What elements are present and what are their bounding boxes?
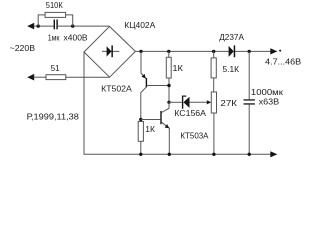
node VT2 emitter rail junction (168, 153, 171, 156)
wire rail to R3 (168, 51, 170, 57)
top rail output arrow (270, 48, 277, 54)
dot after output arrow (279, 50, 281, 52)
wire zener anode to pot wiper (190, 101, 208, 103)
svg-text:1К: 1К (145, 124, 155, 134)
node C2 bottom rail junction (248, 153, 251, 156)
svg-text:КТ503А: КТ503А (180, 131, 208, 141)
capacitor C1 right plate (56, 20, 57, 30)
bottom rail output arrow (270, 151, 277, 157)
capacitor C2 top plate (244, 99, 255, 100)
resistor R2 51 body (46, 75, 66, 80)
transistor VT1 emitter arrow (141, 74, 145, 79)
zener VD3 triangle (183, 97, 189, 108)
capacitor C2 bottom plate (244, 103, 255, 104)
svg-text:КТ502А: КТ502А (101, 83, 132, 93)
node rail-R3 junction (167, 50, 170, 53)
wire R5 to pot R6 (213, 78, 215, 92)
transistor VT1 КТ502А emitter lead (141, 51, 146, 78)
node R4 bottom rail junction (139, 153, 142, 156)
svg-text:27К: 27К (220, 98, 237, 108)
svg-text:х400В: х400В (64, 32, 88, 42)
wire resistor R1 branch (38, 15, 72, 26)
capacitor C1 left plate (54, 20, 55, 30)
transistor VT1 base bar (146, 78, 147, 87)
svg-text:51: 51 (51, 63, 60, 73)
input terminal arrow (AC line 1) (27, 23, 34, 30)
svg-text:КС156А: КС156А (174, 108, 206, 118)
wire rail to R5 (213, 51, 215, 58)
diode VD2 Д237А triangle (229, 46, 234, 57)
zener VD3 cathode bar (182, 96, 183, 109)
wire bridge minus lead and bottom rail (84, 52, 271, 154)
node VT1 collector / VT2 base junction (139, 118, 142, 121)
svg-text:1000мк: 1000мк (251, 87, 283, 97)
wire C2 top lead (248, 51, 250, 99)
resistor R5 5.1K body (211, 58, 216, 78)
node RC right junction (71, 24, 74, 27)
wire AC line 2 to resistor R2 (34, 76, 47, 78)
svg-text:КЦ402А: КЦ402А (124, 20, 155, 30)
node zener cathode junction (167, 101, 170, 104)
node RC left junction (37, 24, 40, 27)
input terminal arrow (AC line 2) (27, 74, 34, 81)
wire C2 bottom lead (248, 105, 250, 155)
wire R6 to bottom rail (213, 113, 215, 154)
svg-text:5.1К: 5.1К (223, 64, 240, 74)
transistor VT2 emitter arrow (165, 124, 170, 128)
bridge internal diode triangle (107, 46, 112, 56)
bridge internal diode lead (102, 50, 119, 52)
node rail-C2 junction (248, 50, 251, 53)
transistor VT2 emitter lead (162, 122, 170, 154)
resistor R4 1K body (collector) (138, 122, 143, 142)
diode VD2 cathode bar (234, 45, 236, 57)
bridge internal diode cathode bar (111, 45, 113, 57)
transistor VT1 base wire (147, 85, 169, 87)
node R6 bottom rail junction (212, 153, 215, 156)
transistor VT2 collector lead (162, 102, 170, 112)
zener VD3 cathode tick (183, 96, 186, 97)
wire top rail bridge plus to diode VD2 (135, 50, 228, 52)
transistor VT1 collector lead (141, 87, 146, 121)
wire zener cathode lead (169, 101, 182, 103)
resistor R1 510K body (45, 12, 66, 17)
node rail-emitter junction VT1 (139, 50, 142, 53)
wire R3 bottom to zener node (168, 78, 170, 102)
node VT1 base junction (167, 84, 170, 87)
wire AC line 1 to bridge top vertex (34, 25, 110, 27)
wire R2 to bridge bottom vertex (66, 76, 110, 78)
svg-text:1К: 1К (172, 63, 183, 73)
transistor VT2 base wire (141, 119, 161, 121)
svg-text:Р,1999,11,38: Р,1999,11,38 (27, 111, 80, 121)
potentiometer R6 27K body (211, 92, 216, 113)
svg-text:х63В: х63В (259, 97, 280, 107)
svg-text:510К: 510К (46, 0, 63, 10)
transistor VT2 base bar (160, 111, 161, 124)
svg-text:1мк: 1мк (48, 32, 60, 42)
svg-text:~220В: ~220В (10, 43, 36, 53)
bridge rectifier VD1 diamond (84, 26, 135, 77)
pot wiper arrow (207, 100, 211, 104)
svg-text:Д237А: Д237А (219, 32, 244, 42)
svg-text:4.7...46В: 4.7...46В (265, 57, 301, 67)
resistor R3 1K body (base) (166, 57, 171, 78)
wire top rail diode VD2 to output arrow (235, 50, 271, 52)
node rail-R5 junction (212, 50, 215, 53)
wire R4 to bottom rail (140, 141, 142, 154)
